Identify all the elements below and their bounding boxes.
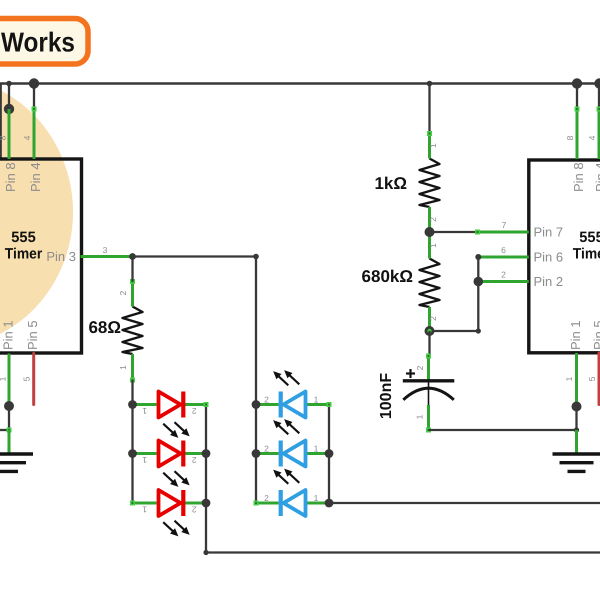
svg-text:Pin 2: Pin 2: [534, 274, 564, 289]
svg-text:1: 1: [314, 395, 319, 405]
junction R1-R2: [425, 227, 435, 237]
LED blue LED6: [254, 470, 330, 517]
resistor R3 68ohm body: [123, 307, 143, 355]
svg-text:2: 2: [264, 444, 269, 454]
U2 pin 5 lead (unconnected, red): [598, 353, 600, 405]
R3 pin 2 lead: [131, 282, 134, 307]
svg-text:1kΩ: 1kΩ: [374, 174, 407, 193]
svg-text:Pin 5: Pin 5: [591, 320, 600, 350]
junction LED4 left: [252, 400, 261, 409]
IC U2 555 Timer body: [529, 160, 600, 353]
svg-text:1: 1: [564, 376, 574, 381]
wire power rail: [0, 82, 600, 85]
junction LED5 left: [252, 449, 261, 458]
ground GND2 symbol: [553, 454, 600, 471]
C1 pin 2 lead: [427, 356, 430, 382]
junction pin6: [475, 254, 481, 260]
svg-text:Pin 8: Pin 8: [3, 162, 18, 192]
C1 curved plate: [403, 388, 454, 400]
junction pin3 node: [129, 253, 136, 260]
capacitor C1 100nF: [378, 354, 454, 433]
junction blue column top: [253, 254, 259, 260]
svg-text:1: 1: [314, 493, 319, 503]
wire pin6 to pin2 vertical: [477, 257, 479, 331]
svg-text:680kΩ: 680kΩ: [362, 267, 413, 286]
C1 top plate: [403, 379, 455, 382]
svg-text:2: 2: [192, 406, 197, 416]
svg-text:1: 1: [118, 365, 128, 370]
svg-text:2: 2: [118, 290, 128, 295]
U2 pin 6 lead: [478, 256, 529, 259]
wire left off-canvas: [0, 429, 9, 431]
svg-text:2: 2: [192, 505, 197, 515]
svg-text:1: 1: [142, 406, 147, 416]
junction R2-C1 node (green): [425, 326, 435, 336]
svg-text:5: 5: [587, 376, 597, 381]
C1 inner pin stub: [428, 382, 430, 406]
U1 pin 8 lead: [8, 109, 11, 159]
U2 pin 8 lead: [576, 109, 579, 159]
R1 pin 1 lead: [428, 134, 431, 159]
svg-text:4: 4: [22, 135, 32, 140]
svg-text:2: 2: [415, 365, 425, 370]
svg-text:1: 1: [415, 414, 425, 419]
svg-text:555: 555: [11, 229, 36, 246]
svg-text:2: 2: [428, 217, 438, 222]
junction U1 pin8 wire: [4, 104, 14, 114]
U1 pin 4 lead: [33, 109, 36, 159]
svg-text:4: 4: [587, 135, 597, 140]
junction rail-pin8-U2: [572, 78, 582, 88]
junction rail-pin4-U1: [29, 78, 39, 88]
svg-text:68Ω: 68Ω: [88, 318, 121, 337]
svg-text:2: 2: [501, 270, 506, 280]
wire blue LED right column: [328, 405, 330, 504]
svg-text:1: 1: [314, 444, 319, 454]
IC U1 555 Timer body: [0, 159, 82, 353]
LED red LED2: [133, 441, 207, 487]
svg-text:Pin 3: Pin 3: [46, 249, 76, 264]
ground GND2 pin: [575, 430, 578, 454]
wire U1 pin1 to ground: [8, 406, 10, 430]
wire U1 pin3 junction to blue column: [133, 255, 257, 257]
svg-text:Pin 4: Pin 4: [28, 162, 43, 192]
U2 pin 2 lead: [478, 280, 529, 283]
junction pin2: [474, 277, 484, 287]
wire R3 to LED rows: [131, 380, 133, 405]
logo badge: [0, 19, 88, 65]
svg-text:1: 1: [0, 376, 8, 381]
C1 plus sign: [406, 372, 415, 374]
svg-text:Pin 6: Pin 6: [534, 250, 564, 265]
svg-text:1: 1: [142, 455, 147, 465]
U1 pin 5 lead (unconnected, red): [32, 354, 35, 405]
svg-text:1: 1: [428, 143, 438, 148]
junction rail-pin4-U2: [594, 78, 600, 88]
U1 pin 3 lead: [81, 255, 133, 258]
R2 pin 2 lead: [428, 307, 431, 331]
U2 pin 7 lead: [478, 231, 529, 234]
junction rail-R1: [427, 81, 433, 87]
junction wire corner: [476, 328, 481, 333]
svg-text:7: 7: [502, 220, 507, 230]
svg-text:Pin 1: Pin 1: [1, 320, 16, 350]
junction LED2 right: [202, 449, 211, 458]
wire rail to U2 pin8: [576, 84, 578, 110]
wire U2 pin1 to ground: [575, 407, 577, 431]
junction LED1 left: [128, 400, 137, 409]
wire R2 node down to C1: [428, 331, 430, 356]
U1 pin 1 lead: [8, 354, 11, 407]
junction rail-pin8-U1: [6, 81, 12, 87]
svg-text:Timer: Timer: [573, 246, 600, 263]
wire blue row3 to right: [329, 502, 600, 504]
junction LED3 right: [202, 499, 211, 508]
svg-text:2: 2: [428, 316, 438, 321]
junction bottom rail corner: [203, 550, 208, 555]
LED blue LED5: [256, 420, 329, 467]
svg-text:555: 555: [579, 229, 600, 246]
resistor R1 1k body: [420, 159, 440, 208]
svg-text:3: 3: [103, 245, 108, 255]
junction LED6 right: [325, 499, 334, 508]
wire C1 bottom to U2 pin1 column: [429, 429, 577, 431]
svg-text:Pin 8: Pin 8: [571, 162, 586, 192]
wire red LED right column: [205, 405, 207, 504]
svg-text:5: 5: [22, 376, 32, 381]
svg-text:Pin 1: Pin 1: [568, 320, 583, 350]
junction U2 pin1: [572, 402, 582, 412]
svg-text:Timer: Timer: [5, 246, 43, 263]
R2 pin 1 lead: [428, 232, 431, 259]
wire R2 bottom to pin2/pin6 column: [430, 330, 479, 332]
svg-text:2: 2: [192, 455, 197, 465]
U2 pin 1 lead: [575, 353, 578, 407]
LED red LED1: [133, 392, 209, 438]
wire R1/R2 node to U2 pin7: [430, 231, 478, 233]
highlight circle behind IC1: [0, 77, 73, 347]
LED blue LED4: [256, 371, 332, 418]
ground GND1 symbol: [0, 454, 33, 471]
junction LED5 right: [325, 449, 334, 458]
wire blue LED left column: [255, 257, 257, 504]
ground GND1 pin: [8, 430, 11, 454]
svg-text:Pin 4: Pin 4: [593, 162, 600, 192]
junction U1 pin1: [4, 401, 14, 411]
C1 pin 1 lead: [427, 405, 430, 430]
svg-text:6: 6: [501, 245, 506, 255]
svg-text:2: 2: [264, 493, 269, 503]
resistor R2 680k body: [420, 259, 440, 308]
wire rail to U1 pin4: [33, 84, 35, 110]
R3 pin 1 lead: [131, 354, 134, 380]
wire rail to U2 pin4: [598, 84, 600, 110]
R1 pin 2 lead: [428, 207, 431, 232]
wire pin3 junction down to R3: [131, 257, 133, 282]
svg-text:Works: Works: [1, 27, 75, 58]
wire rail to U1 pin8: [8, 84, 10, 110]
junction C1 wire end: [574, 427, 579, 432]
svg-text:Pin 7: Pin 7: [534, 225, 564, 240]
wire bottom rail right: [206, 551, 600, 553]
svg-text:100nF: 100nF: [378, 373, 395, 419]
svg-text:Pin 5: Pin 5: [25, 320, 40, 350]
svg-text:8: 8: [0, 135, 8, 140]
svg-text:1: 1: [142, 505, 147, 515]
svg-text:1: 1: [428, 243, 438, 248]
svg-text:8: 8: [565, 135, 575, 140]
wire red column down to bottom rail: [205, 503, 207, 553]
wire at canvas left edge (cropped): [0, 85, 2, 158]
LED red LED3: [130, 490, 206, 536]
wire red LED left column: [131, 405, 133, 504]
junction LED2 left: [128, 449, 137, 458]
U2 pin 4 lead: [598, 109, 600, 159]
wire rail to R1: [428, 84, 430, 134]
svg-text:2: 2: [264, 395, 269, 405]
